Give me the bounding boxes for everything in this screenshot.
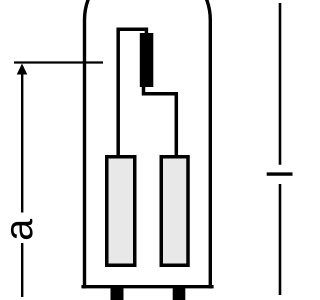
dimension extension line	[14, 61, 103, 63]
dimension arrow head	[17, 64, 28, 75]
left pin (molybdenum foil)	[107, 157, 135, 266]
lamp envelope right wall	[205, 0, 210, 288]
right lead wire	[144, 86, 177, 155]
right pin (molybdenum foil)	[161, 157, 188, 266]
right reference line lower segment	[279, 184, 282, 295]
dimension line lower segment	[21, 243, 23, 297]
filament	[140, 33, 154, 87]
dimension label a	[11, 219, 33, 239]
dimension line upper segment	[21, 66, 23, 213]
lamp base bottom edge	[81, 285, 213, 288]
lamp envelope left wall	[85, 0, 90, 288]
right reference line upper segment	[279, 3, 282, 165]
left lead wire	[118, 29, 146, 155]
right reference tick	[267, 172, 293, 175]
left base pin tab	[111, 287, 124, 300]
right base pin tab	[173, 287, 186, 300]
